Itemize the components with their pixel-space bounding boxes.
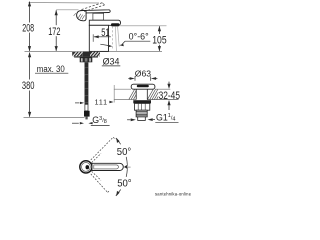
svg-text:santehnika-online: santehnika-online — [155, 192, 192, 197]
svg-text:105: 105 — [152, 34, 166, 46]
svg-text:50°: 50° — [117, 178, 131, 189]
svg-text:Ø63: Ø63 — [135, 69, 151, 79]
svg-text:max. 30: max. 30 — [37, 64, 65, 74]
svg-text:0°-6°: 0°-6° — [129, 32, 149, 42]
svg-text:50°: 50° — [117, 147, 131, 158]
svg-text:111: 111 — [95, 100, 108, 107]
svg-text:32-45: 32-45 — [159, 90, 180, 102]
svg-text:Ø34: Ø34 — [103, 56, 120, 66]
svg-text:380: 380 — [22, 80, 35, 92]
svg-text:172: 172 — [48, 26, 60, 38]
svg-text:208: 208 — [22, 22, 34, 34]
